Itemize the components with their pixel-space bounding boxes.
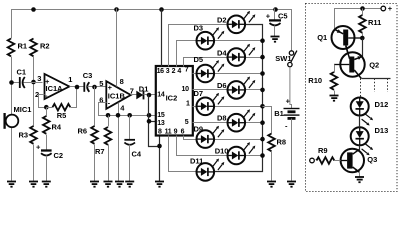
wire Q2 collector to D12	[362, 78, 391, 80]
wire IC2 pin5 to D8 row	[193, 122, 228, 124]
wire riser D1 node down	[149, 95, 160, 147]
ground Q3	[355, 177, 364, 182]
svg-text:4: 4	[177, 68, 181, 75]
wire dotted option stub 2	[387, 79, 389, 93]
node bus/D9	[260, 137, 265, 142]
svg-text:R7: R7	[95, 147, 105, 156]
svg-text:IC1B: IC1B	[108, 91, 126, 100]
svg-text:R2: R2	[40, 42, 50, 51]
svg-text:D1: D1	[139, 85, 149, 94]
svg-text:8: 8	[120, 77, 124, 86]
svg-text:IC1A: IC1A	[46, 84, 64, 93]
svg-text:11: 11	[165, 129, 172, 136]
node bus/D7	[260, 104, 265, 109]
node junction riser/pin13	[147, 119, 152, 124]
node bus/D10	[260, 153, 265, 158]
svg-text:Q1: Q1	[317, 33, 327, 42]
svg-text:6: 6	[99, 95, 103, 104]
resistor R4	[43, 116, 50, 134]
svg-text:D8: D8	[217, 114, 227, 123]
node R11 top	[360, 6, 365, 11]
wire SW1 to battery	[290, 67, 292, 109]
capacitor C1	[19, 77, 21, 88]
op-amp IC1A	[45, 74, 70, 99]
svg-text:5: 5	[185, 119, 189, 126]
svg-text:3: 3	[166, 68, 170, 75]
wire anode bus right of LEDs	[215, 25, 263, 172]
ground MIC1	[7, 182, 16, 187]
transistor Q3	[341, 149, 364, 172]
wire IC2 pin2 to D3 row	[177, 41, 197, 67]
node junction C4/feedback	[127, 113, 132, 118]
svg-text:R3: R3	[19, 131, 29, 140]
resistor R3	[30, 126, 37, 144]
wire IC1B pin4 down to ground	[118, 103, 120, 182]
wire R4 to C2	[46, 135, 48, 151]
wire IC2 pin9 bottom to D10 row	[177, 136, 228, 156]
resistor R5	[47, 107, 53, 109]
capacitor C3	[83, 82, 85, 92]
wire B1 to ground	[291, 119, 293, 182]
wire IC2 pin4 to D4 row	[184, 58, 228, 67]
ground B1	[287, 182, 296, 187]
svg-text:9: 9	[174, 129, 178, 136]
svg-text:7: 7	[185, 66, 189, 73]
wire MIC1 to ground	[11, 128, 13, 182]
transistor Q1	[332, 26, 355, 49]
resistor R2	[30, 39, 37, 57]
wire IC2 pin3 to D2 row	[169, 25, 228, 67]
ground R10	[330, 96, 339, 101]
node bus/D5	[260, 71, 265, 76]
svg-text:D2: D2	[217, 15, 227, 24]
svg-text:3: 3	[37, 74, 41, 83]
LED D10	[228, 142, 256, 164]
ground R3	[29, 182, 38, 187]
wire R6 top	[94, 87, 96, 127]
node junction R4/R5/pin2	[44, 105, 49, 110]
LED D11	[197, 159, 225, 181]
wire Q3 emitter to ground	[359, 173, 361, 177]
LED D9	[197, 126, 225, 148]
svg-text:R6: R6	[78, 127, 88, 136]
svg-text:+: +	[388, 4, 393, 13]
svg-text:D6: D6	[217, 81, 227, 90]
wire D5 row right	[215, 73, 263, 75]
wire C3 to IC1B pin5	[88, 86, 107, 88]
wire D4 row right	[246, 57, 263, 59]
svg-text:2: 2	[172, 68, 176, 75]
LED D4	[228, 44, 256, 66]
wire C2 to ground	[46, 156, 48, 182]
wire D3 row right	[215, 40, 263, 42]
dashed option box	[306, 4, 398, 192]
node junction rail/R2	[31, 7, 36, 12]
node bus/D8	[260, 120, 265, 125]
svg-text:15: 15	[157, 112, 165, 119]
svg-text:1: 1	[68, 75, 72, 84]
svg-text:5: 5	[99, 79, 103, 88]
wire D1 to IC2 pin14	[144, 94, 156, 96]
capacitor C4	[129, 116, 131, 140]
node junction C3/R6	[92, 85, 97, 90]
svg-text:C4: C4	[132, 150, 142, 159]
wire IC1A output to C3	[70, 86, 85, 88]
node junction output/R5 feedback	[75, 85, 80, 90]
wire IC1B pin6 feedback loop	[99, 103, 156, 116]
node junction riser/feedback	[147, 113, 152, 118]
svg-text:C1: C1	[17, 68, 27, 77]
svg-text:1: 1	[186, 100, 190, 107]
svg-text:D10: D10	[215, 147, 229, 156]
svg-text:C5: C5	[278, 11, 288, 20]
wire pin13 stub	[149, 121, 156, 123]
svg-text:14: 14	[157, 92, 165, 99]
wire IC2 pin8 to ground	[159, 136, 161, 182]
capacitor C5 electrolytic	[274, 9, 276, 20]
wire IC2 pin16 to rail	[161, 10, 163, 67]
wire dotted option stub 1	[374, 79, 376, 93]
svg-text:D11: D11	[190, 157, 203, 166]
LED D7	[197, 93, 225, 115]
node bus/D6	[260, 88, 265, 93]
wire D7 row right	[215, 106, 263, 108]
ground C4	[125, 182, 134, 187]
svg-text:D3: D3	[194, 23, 204, 32]
svg-text:SW1: SW1	[275, 54, 291, 63]
ground C5	[271, 37, 280, 42]
resistor R1	[8, 39, 15, 57]
node junction left rail / C1	[9, 80, 14, 85]
svg-text:C2: C2	[54, 151, 64, 160]
node bus/D3	[260, 38, 265, 43]
svg-text:R9: R9	[318, 146, 328, 155]
node junction R7/feedback	[106, 113, 111, 118]
node junction rail/IC1B pin8	[114, 7, 119, 12]
node junction rail/IC2 pin16	[159, 7, 164, 12]
svg-text:R10: R10	[308, 76, 322, 85]
svg-text:13: 13	[157, 120, 165, 127]
svg-text:D13: D13	[375, 126, 389, 135]
LED D6	[228, 77, 256, 99]
switch SW1	[289, 51, 293, 55]
ground R7	[104, 182, 113, 187]
svg-text:R4: R4	[52, 123, 62, 132]
svg-text:D7: D7	[194, 89, 204, 98]
svg-text:D12: D12	[375, 100, 389, 109]
wire IC2 pin10 to D6 row	[193, 89, 228, 91]
diode D1	[136, 91, 143, 100]
wire D8 row right	[246, 122, 263, 124]
resistor R6	[91, 126, 98, 144]
wire R8 to ground	[271, 152, 273, 182]
svg-text:D5: D5	[194, 55, 204, 64]
wire R4 top	[46, 108, 48, 117]
svg-text:C3: C3	[83, 71, 93, 80]
resistor R10	[334, 65, 336, 73]
wire IC2 pin1 to D7 row	[193, 106, 197, 108]
node Q1 base / R11	[360, 36, 365, 41]
wire top supply rail	[12, 10, 292, 51]
wire IC1B output to D1	[131, 94, 137, 96]
svg-text:6: 6	[181, 129, 185, 136]
microphone MIC1	[6, 115, 19, 128]
wire R3 to ground	[33, 145, 35, 182]
svg-text:MIC1: MIC1	[14, 105, 32, 114]
svg-text:Q3: Q3	[367, 155, 377, 164]
LED D13	[351, 127, 373, 155]
wire R8 branch from bus	[263, 107, 272, 134]
wire D10 row right	[246, 155, 263, 157]
resistor R9	[310, 158, 315, 163]
wire C1 left lead	[12, 82, 20, 84]
svg-text:IC2: IC2	[166, 94, 178, 103]
resistor R8	[268, 134, 275, 152]
ground IC2 pin8	[155, 182, 164, 187]
ground R8	[267, 182, 276, 187]
transistor Q2	[340, 52, 364, 76]
svg-text:+: +	[266, 11, 271, 20]
svg-text:R11: R11	[368, 18, 381, 27]
svg-text:16: 16	[157, 68, 165, 75]
svg-text:B1: B1	[274, 109, 284, 118]
wire box top rail to terminal	[335, 9, 381, 30]
svg-text:8: 8	[158, 129, 162, 136]
wire IC2 pin6 bottom to D9 row	[184, 136, 197, 140]
node junction pin8/riser	[157, 144, 162, 149]
svg-text:10: 10	[182, 86, 190, 93]
wire IC2 pin7 to D5 row	[193, 73, 197, 75]
resistor R7	[108, 116, 110, 127]
LED D5	[197, 60, 225, 82]
wire Q1 base node to Q2 emitter	[362, 39, 364, 57]
svg-text:+: +	[36, 143, 41, 152]
wire IC1A pin2 loop down	[39, 95, 47, 108]
svg-text:R5: R5	[57, 111, 67, 120]
node junction pin4/feedback	[116, 113, 121, 118]
svg-text:D4: D4	[217, 48, 227, 57]
IC IC2 box	[156, 66, 193, 136]
wire C1 node to R3	[33, 83, 35, 127]
LED D3	[197, 27, 225, 49]
LED D2	[228, 11, 256, 33]
wire left rail R1 bottom to C1 node to MIC1	[11, 57, 13, 115]
wire D6 row right	[246, 89, 263, 91]
wire C1 to IC1A pin3	[24, 82, 43, 84]
op-amp IC1B	[106, 81, 131, 109]
svg-text:D9: D9	[194, 125, 204, 134]
node junction rail/C5	[273, 7, 278, 12]
wire IC1B pin8 from rail	[116, 9, 118, 87]
wire IC2 pin11 bottom to D11 row	[169, 136, 197, 172]
node bus/D4	[260, 55, 265, 60]
svg-text:Q2: Q2	[369, 61, 379, 70]
resistor R11	[362, 9, 364, 16]
ground pin4	[115, 182, 124, 187]
svg-text:+: +	[286, 97, 291, 106]
wire D9 row right	[215, 139, 263, 141]
svg-text:R1: R1	[18, 42, 28, 51]
node junction C1/R2/R3/pin3	[31, 80, 36, 85]
node junction D1/riser	[147, 93, 152, 98]
svg-text:R8: R8	[277, 138, 287, 147]
wire R6 to ground	[94, 145, 96, 182]
ground C2	[42, 182, 51, 187]
wire R2 bottom to C1 right node	[33, 57, 35, 83]
LED D8	[228, 109, 256, 131]
wire D12 to D13	[359, 116, 361, 128]
terminal + output	[381, 6, 386, 11]
ground R6	[90, 182, 99, 187]
LED D12	[351, 98, 373, 126]
